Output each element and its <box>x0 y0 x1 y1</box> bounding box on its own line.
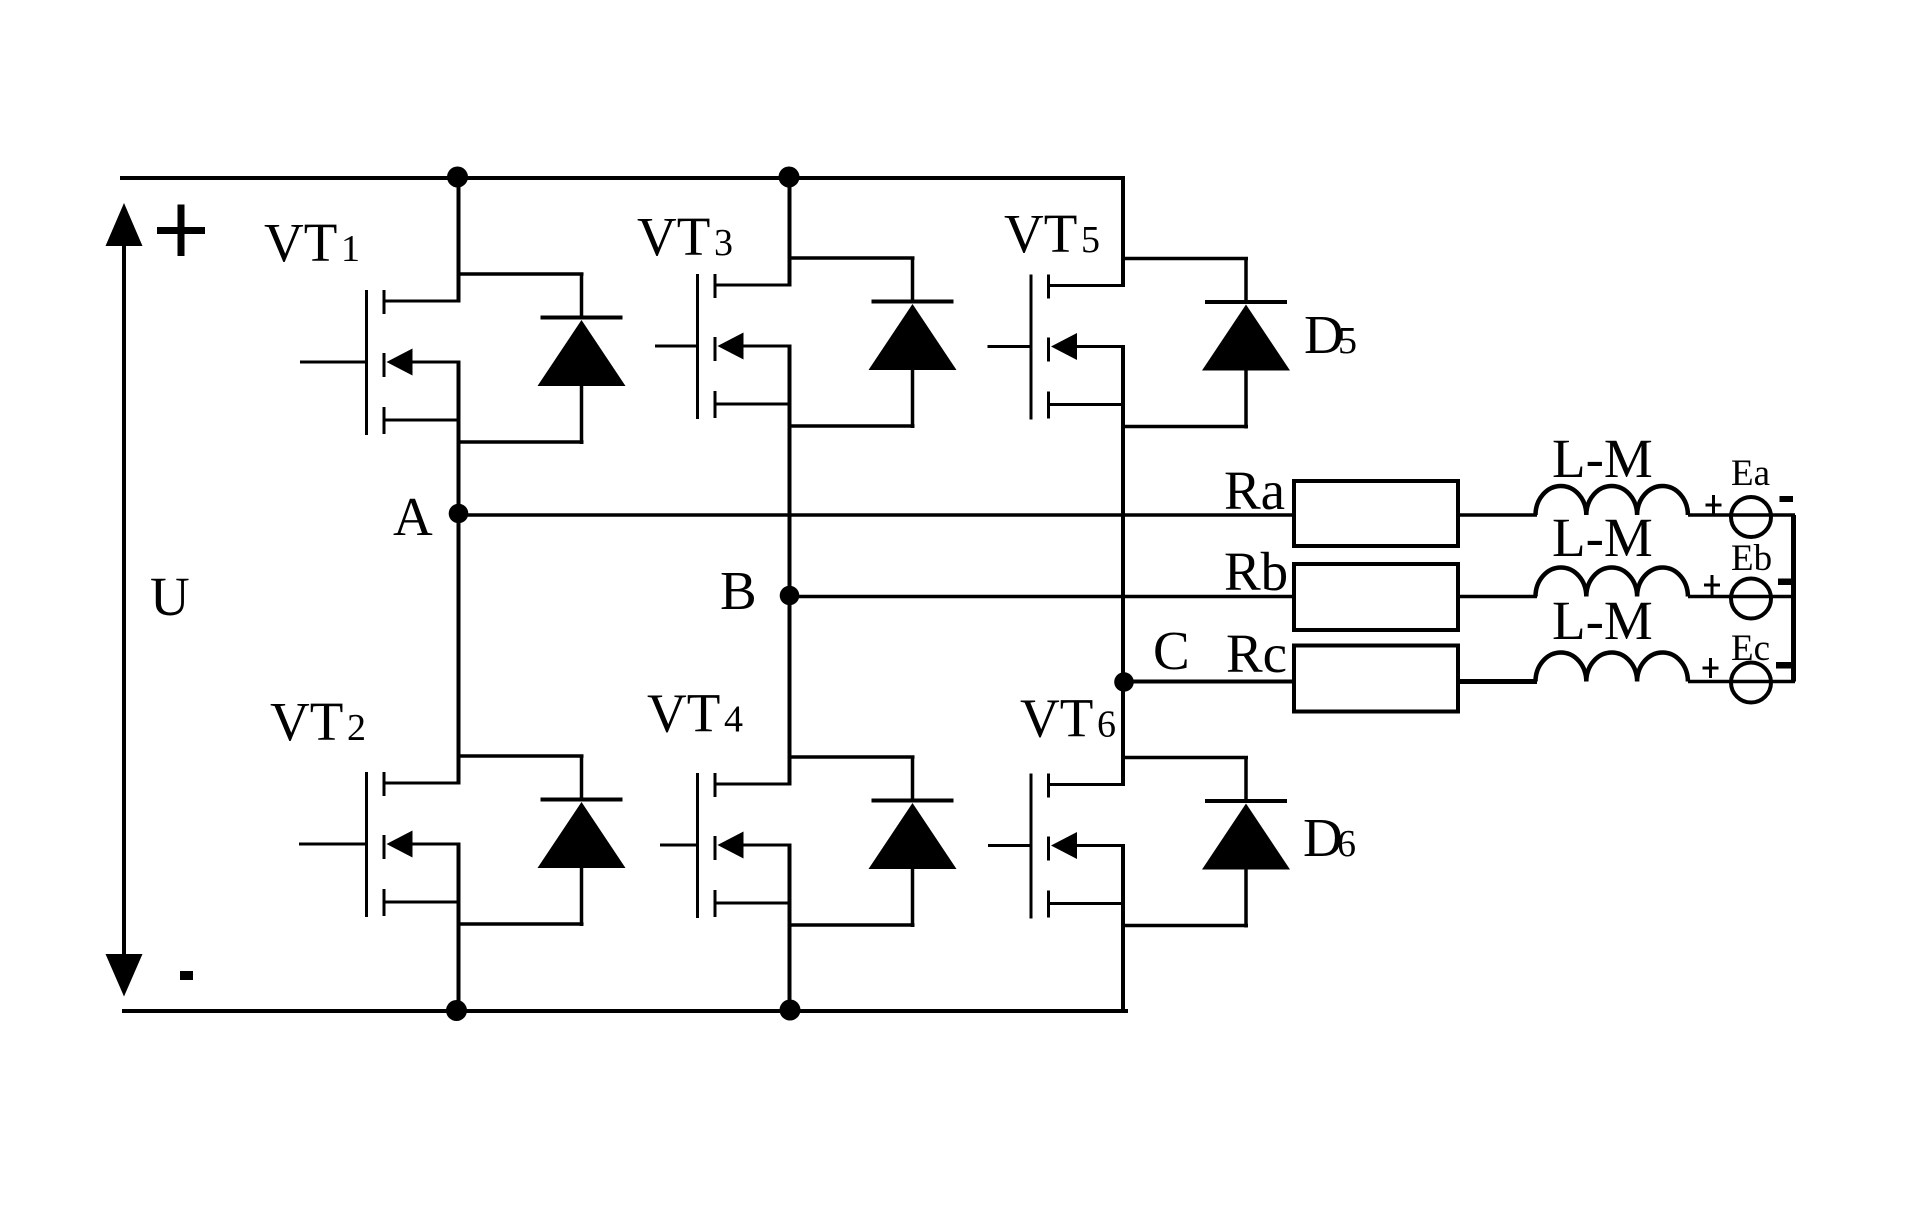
wire leg B drain side (bus to VT3) <box>788 176 792 287</box>
svg-text:VT: VT <box>264 212 337 273</box>
wire leg C VT5 source to node C <box>1121 345 1125 682</box>
label VT2 <box>270 691 366 752</box>
wire Lb to Eb <box>1688 595 1795 599</box>
minus sign Ea <box>1780 496 1794 502</box>
label L-M phase B <box>1552 507 1653 568</box>
transistor VT3 <box>655 274 790 419</box>
wire Rb to Lb <box>1458 595 1537 599</box>
transistor VT4 <box>660 773 790 918</box>
svg-text:Rb: Rb <box>1224 541 1288 602</box>
EMF source Ea <box>1731 497 1771 537</box>
junction top bus / leg A <box>447 167 468 188</box>
wire Rc to Lc <box>1458 679 1537 684</box>
minus sign Eb <box>1778 579 1793 586</box>
transistor VT5 <box>988 275 1124 420</box>
svg-text:VT: VT <box>1020 688 1093 749</box>
transistor VT6 <box>988 774 1123 919</box>
wire leg A VT1 source to node A <box>457 361 461 516</box>
svg-text:B: B <box>720 560 757 621</box>
junction top bus / leg B <box>779 167 800 188</box>
wire leg B VT4 source to bottom bus <box>788 844 792 1012</box>
svg-text:5: 5 <box>1338 320 1357 362</box>
svg-text:VT: VT <box>270 691 343 752</box>
label VT4 <box>647 683 743 744</box>
label VT3 <box>637 206 733 267</box>
wire leg A VT2 source to bottom bus <box>457 843 461 1012</box>
label node B <box>720 560 757 621</box>
inductor L-M phase B <box>1536 568 1688 597</box>
label L-M phase C <box>1552 590 1653 651</box>
DC link voltage arrow (double headed) <box>106 203 143 997</box>
label D6 <box>1303 807 1356 868</box>
svg-text:Ea: Ea <box>1731 453 1770 494</box>
svg-text:A: A <box>393 486 433 547</box>
svg-text:3: 3 <box>714 222 733 264</box>
plus sign Eb <box>1704 575 1720 595</box>
label L-M phase A <box>1552 428 1653 489</box>
svg-text:VT: VT <box>647 683 720 744</box>
svg-text:2: 2 <box>347 707 366 749</box>
transistor VT1 <box>300 290 459 435</box>
svg-text:U: U <box>150 566 190 627</box>
label Ec <box>1731 628 1770 669</box>
EMF source Eb <box>1731 579 1771 619</box>
label Ea <box>1731 453 1770 494</box>
wire leg A drain side (bus to VT1) <box>457 176 461 303</box>
inductor L-M phase C <box>1536 653 1688 682</box>
wire leg C VT6 source to bottom bus <box>1121 844 1125 1011</box>
svg-text:Ra: Ra <box>1224 460 1285 521</box>
label Rb <box>1224 541 1288 602</box>
wire La to Ea <box>1688 513 1795 517</box>
wire neutral bus (right vertical) <box>1791 515 1796 682</box>
wire leg A node A to VT2 drain <box>457 515 461 785</box>
svg-text:L-M: L-M <box>1552 590 1653 651</box>
transistor VT2 <box>299 772 459 917</box>
node A junction dot <box>449 504 469 524</box>
wire leg B VT3 source to node B <box>788 345 792 597</box>
inductor L-M phase A <box>1536 486 1688 515</box>
svg-text:VT: VT <box>637 206 710 267</box>
svg-text:1: 1 <box>341 228 360 270</box>
svg-text:L-M: L-M <box>1552 428 1653 489</box>
label Rc <box>1226 623 1287 684</box>
label U <box>150 566 190 627</box>
antiparallel diode of VT4 <box>790 756 957 927</box>
plus sign Ea <box>1706 495 1722 515</box>
antiparallel diode of VT6 <box>1123 757 1290 928</box>
wire phase C (node C to Rc) <box>1124 680 1296 684</box>
resistor Rb <box>1294 564 1458 630</box>
plus polarity label (top left) <box>157 205 205 257</box>
wire leg B node B to VT4 drain <box>788 597 792 786</box>
label Eb <box>1731 538 1772 579</box>
label VT6 <box>1020 688 1116 749</box>
node C junction dot <box>1114 672 1134 692</box>
svg-text:6: 6 <box>1337 823 1356 865</box>
svg-text:Rc: Rc <box>1226 623 1287 684</box>
junction bottom bus / leg A <box>446 1000 467 1021</box>
wire leg C top corner (bus to VT5) <box>1121 176 1125 287</box>
svg-text:4: 4 <box>724 699 743 741</box>
label node C <box>1153 620 1190 681</box>
wire Ra to La <box>1458 513 1537 517</box>
node B junction dot <box>780 586 800 606</box>
wire Lc to Ec <box>1688 680 1795 684</box>
antiparallel diode of VT3 <box>790 257 957 428</box>
antiparallel diode of VT1 <box>459 273 626 444</box>
label Ra <box>1224 460 1285 521</box>
label VT5 <box>1004 203 1100 264</box>
svg-text:VT: VT <box>1004 203 1077 264</box>
svg-text:6: 6 <box>1097 704 1116 746</box>
wire leg C node C to VT6 drain <box>1121 682 1125 787</box>
svg-text:C: C <box>1153 620 1190 681</box>
EMF source Ec <box>1731 663 1771 703</box>
junction bottom bus / leg B <box>780 1000 801 1021</box>
svg-text:Eb: Eb <box>1731 538 1772 579</box>
antiparallel diode of VT2 <box>459 755 626 926</box>
svg-text:5: 5 <box>1081 219 1100 261</box>
label node A <box>393 486 433 547</box>
antiparallel diode of VT5 <box>1123 258 1290 429</box>
wire top DC bus <box>120 176 1125 180</box>
minus sign Ec <box>1776 662 1793 669</box>
label D5 <box>1304 304 1357 365</box>
svg-text:L-M: L-M <box>1552 507 1653 568</box>
resistor Rc <box>1294 646 1458 712</box>
wire phase B (node B to Rb) <box>790 595 1297 599</box>
label VT1 <box>264 212 360 273</box>
svg-text:Ec: Ec <box>1731 628 1770 669</box>
wire bottom DC bus <box>122 1009 1128 1013</box>
plus sign Ec <box>1703 658 1719 678</box>
resistor Ra <box>1294 481 1458 546</box>
wire phase A (node A to Ra) <box>459 513 1297 517</box>
minus polarity label (bottom left) <box>180 971 193 980</box>
